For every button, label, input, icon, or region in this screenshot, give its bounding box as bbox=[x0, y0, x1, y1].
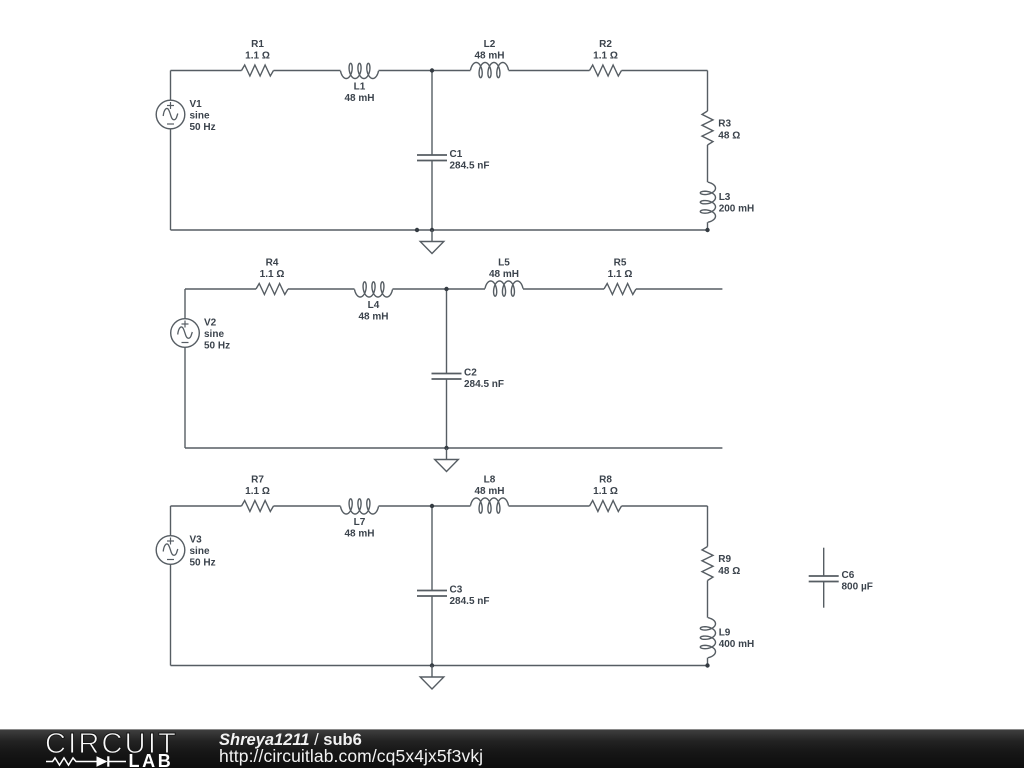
svg-text:48 mH: 48 mH bbox=[489, 269, 519, 280]
svg-text:1.1 Ω: 1.1 Ω bbox=[260, 269, 285, 280]
svg-text:C6: C6 bbox=[842, 570, 855, 581]
svg-text:L4: L4 bbox=[368, 300, 380, 311]
svg-text:L9: L9 bbox=[719, 627, 731, 638]
svg-text:L7: L7 bbox=[354, 517, 366, 528]
svg-text:284.5 nF: 284.5 nF bbox=[464, 379, 504, 390]
svg-text:L1: L1 bbox=[354, 82, 366, 93]
svg-text:284.5 nF: 284.5 nF bbox=[450, 596, 490, 607]
svg-text:C3: C3 bbox=[450, 585, 463, 596]
svg-text:LAB: LAB bbox=[129, 751, 174, 768]
svg-text:400 mH: 400 mH bbox=[719, 639, 755, 650]
svg-text:R1: R1 bbox=[251, 39, 264, 50]
svg-text:1.1 Ω: 1.1 Ω bbox=[245, 486, 270, 497]
svg-text:48 Ω: 48 Ω bbox=[718, 130, 740, 141]
svg-text:50 Hz: 50 Hz bbox=[190, 122, 216, 133]
svg-text:sine: sine bbox=[190, 111, 210, 122]
svg-text:R4: R4 bbox=[266, 258, 279, 269]
svg-text:R7: R7 bbox=[251, 475, 264, 486]
svg-text:sine: sine bbox=[204, 329, 224, 340]
svg-text:48 Ω: 48 Ω bbox=[718, 566, 740, 577]
svg-text:R9: R9 bbox=[718, 554, 731, 565]
svg-text:48 mH: 48 mH bbox=[474, 486, 504, 497]
svg-text:L5: L5 bbox=[498, 258, 510, 269]
svg-text:L8: L8 bbox=[484, 475, 496, 486]
svg-text:284.5 nF: 284.5 nF bbox=[450, 161, 490, 172]
svg-text:C1: C1 bbox=[450, 149, 463, 160]
svg-text:R2: R2 bbox=[599, 39, 612, 50]
svg-text:sine: sine bbox=[190, 546, 210, 557]
svg-text:V2: V2 bbox=[204, 318, 217, 329]
svg-text:R5: R5 bbox=[614, 258, 627, 269]
svg-text:L2: L2 bbox=[484, 39, 496, 50]
svg-text:C2: C2 bbox=[464, 368, 477, 379]
svg-text:1.1 Ω: 1.1 Ω bbox=[245, 51, 270, 62]
svg-text:48 mH: 48 mH bbox=[474, 51, 504, 62]
svg-text:R3: R3 bbox=[718, 119, 731, 130]
svg-text:1.1 Ω: 1.1 Ω bbox=[608, 269, 633, 280]
svg-text:L3: L3 bbox=[719, 192, 731, 203]
svg-text:48 mH: 48 mH bbox=[358, 312, 388, 323]
svg-text:1.1 Ω: 1.1 Ω bbox=[593, 51, 618, 62]
svg-text:48 mH: 48 mH bbox=[344, 93, 374, 104]
svg-text:200 mH: 200 mH bbox=[719, 203, 755, 214]
svg-text:48 mH: 48 mH bbox=[344, 529, 374, 540]
svg-text:1.1 Ω: 1.1 Ω bbox=[593, 486, 618, 497]
svg-text:V1: V1 bbox=[190, 99, 203, 110]
svg-text:800 µF: 800 µF bbox=[842, 582, 873, 593]
svg-text:50 Hz: 50 Hz bbox=[204, 341, 230, 352]
svg-text:50 Hz: 50 Hz bbox=[190, 558, 216, 569]
svg-text:R8: R8 bbox=[599, 475, 612, 486]
svg-text:V3: V3 bbox=[190, 535, 203, 546]
